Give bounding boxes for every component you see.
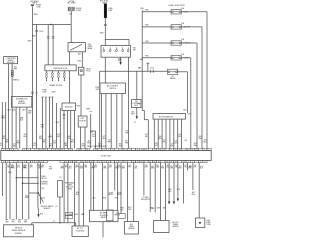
wire stub x=187.6 (187, 163, 189, 171)
wire horizontal bus y=24.5 (33, 24, 72, 26)
shift solenoid box Q (90, 210, 119, 221)
svg-text:BRN: BRN (61, 168, 64, 170)
label BLK mid (9, 166, 53, 174)
svg-text:YEL: YEL (92, 136, 95, 138)
ignition control module box (132, 100, 142, 108)
svg-text:GRN: GRN (23, 165, 26, 167)
wire P2 x=79 (78, 163, 80, 226)
wire x=64.1 (63, 163, 65, 223)
svg-text:BLU: BLU (18, 222, 21, 224)
svg-text:450: 450 (82, 144, 85, 146)
svg-text:3RD CL: 3RD CL (108, 194, 114, 196)
wire vss x=16.3 (15, 163, 17, 220)
svg-text:WHT: WHT (57, 136, 61, 138)
svg-text:WHT: WHT (144, 167, 147, 169)
svg-text:BRN: BRN (188, 168, 191, 170)
wire fuse row 4 right (181, 58, 191, 149)
svg-text:121: 121 (179, 166, 182, 168)
svg-text:11: 11 (145, 149, 147, 151)
svg-text:16: 16 (65, 162, 67, 164)
svg-text:423: 423 (194, 143, 197, 145)
label C100 on wire A (34, 14, 38, 16)
svg-text:440: 440 (67, 136, 70, 138)
svg-text:452: 452 (2, 136, 5, 138)
svg-text:OIL: OIL (171, 76, 174, 78)
svg-text:21: 21 (86, 149, 88, 151)
svg-text:3: 3 (104, 162, 105, 164)
svg-text:PPL: PPL (49, 146, 52, 148)
wire fuel pump x=199.2 (198, 163, 200, 218)
svg-text:6: 6 (24, 162, 25, 164)
svg-text:473: 473 (129, 165, 132, 167)
wire Q2 x=102.5 (102, 163, 104, 211)
wire switch to coil x=69.6 (69, 52, 71, 65)
svg-text:MODULE: MODULE (65, 107, 73, 109)
ignition module box (62, 103, 76, 111)
label BLK right (151, 207, 155, 209)
label SPARK PLUGS (49, 84, 63, 87)
svg-text:1: 1 (3, 162, 4, 164)
svg-text:SOLENOID: SOLENOID (76, 231, 85, 233)
svg-text:123: 123 (171, 144, 174, 146)
label C250 (41, 188, 45, 199)
label C2 lower (55, 206, 57, 208)
label FUSE JUNCTION (169, 5, 186, 7)
wire to box P (75, 223, 77, 226)
wire ac out x=111.2 (110, 94, 112, 149)
jog y=131 (91, 130, 96, 132)
svg-text:C150: C150 (39, 31, 43, 33)
svg-text:473: 473 (103, 136, 106, 138)
svg-text:453: 453 (155, 143, 158, 145)
wire branch y=177.8 (16, 177, 39, 178)
svg-text:VEHICLE SPEED: VEHICLE SPEED (41, 206, 54, 208)
svg-text:WHT: WHT (56, 122, 60, 124)
svg-text:GRN: GRN (128, 209, 131, 211)
wire fuse row 1 left (142, 10, 171, 12)
wire P1 x=74.5 (74, 163, 76, 226)
neutral switch box (153, 113, 185, 119)
svg-text:PICK UP: PICK UP (79, 121, 85, 123)
svg-text:GRY: GRY (29, 167, 32, 169)
svg-text:BLU: BLU (128, 207, 131, 209)
ECM pin cells top row (1, 149, 211, 151)
svg-text:472: 472 (98, 143, 101, 145)
svg-text:WHT: WHT (23, 167, 27, 169)
svg-text:10: 10 (141, 149, 143, 151)
label below icm ground (134, 122, 136, 124)
labels above pickup wires (42, 90, 56, 94)
fusible link A (31, 5, 42, 9)
resistance wire box (58, 181, 63, 198)
wire arrow x=169.1 (168, 163, 170, 205)
transmission solenoid box P (72, 226, 88, 237)
label resistance wire (65, 181, 75, 190)
svg-text:C2: C2 (53, 221, 55, 223)
svg-text:122: 122 (184, 165, 187, 167)
wire icm branch x=136.8 (136, 71, 138, 99)
fuse F3 (171, 38, 192, 45)
svg-text:(IGN COIL: (IGN COIL (66, 186, 73, 188)
wire ECM-B feed x=71.2 (70, 11, 72, 43)
wire dist pickup x=49.6 (48, 97, 50, 149)
svg-text:SPEED: SPEED (173, 224, 179, 226)
power source label HOT AT ALL TIMES (second) (67, 0, 75, 4)
svg-text:DIST: DIST (81, 118, 85, 120)
wire dist shield 1 (15, 107, 17, 149)
label ECM inside band (101, 156, 112, 158)
label C4 (120, 208, 124, 212)
svg-text:424: 424 (199, 136, 202, 138)
svg-text:BLK: BLK (200, 168, 203, 170)
wire pn switch x=169.9 (169, 119, 171, 149)
ECM pin numbers bottom row (3, 162, 206, 164)
connector ticks coil feeds (47, 37, 55, 38)
svg-text:WHT: WHT (1, 118, 5, 120)
wire bus lower jog (142, 111, 148, 120)
output speed box S (154, 221, 169, 233)
wire pn switch x=173.8 (173, 119, 175, 149)
ground arrow icm (136, 116, 138, 119)
wire dist shield 3 (26, 107, 28, 149)
svg-text:417: 417 (65, 165, 68, 167)
svg-text:439: 439 (80, 166, 83, 168)
wire pn switch x=177.7 (177, 119, 179, 149)
wire S1 x=160.4 (159, 163, 161, 221)
wire x=108 to small box (107, 163, 109, 210)
svg-text:BLK: BLK (24, 220, 27, 222)
wire module out 1 (63, 111, 65, 149)
svg-text:451: 451 (161, 166, 164, 168)
power label HOT AT ALL TIMES (center) (100, 0, 109, 4)
fusible link heavy bar (104, 4, 106, 18)
svg-text:BLK: BLK (152, 208, 155, 210)
svg-text:GRN: GRN (120, 208, 123, 210)
svg-text:124: 124 (17, 165, 20, 167)
label A11 (192, 191, 195, 196)
label RED (77, 105, 81, 107)
wire drop x=99.7 (99, 71, 101, 148)
svg-text:424: 424 (41, 165, 44, 167)
wire x=95.4 (94, 131, 96, 149)
fuse F2 (171, 22, 190, 29)
svg-text:453: 453 (170, 166, 173, 168)
svg-text:C2: C2 (49, 135, 51, 137)
svg-text:124: 124 (194, 165, 197, 167)
svg-text:PUMP: PUMP (206, 222, 210, 224)
wire module out 3 (70, 111, 72, 149)
svg-text:WHT: WHT (5, 142, 9, 144)
svg-text:TEMP: TEMP (129, 226, 133, 228)
svg-text:PPL: PPL (170, 146, 173, 148)
svg-text:441: 441 (71, 140, 74, 142)
svg-text:YEL: YEL (41, 167, 44, 169)
wire coil feed 2 x=53.1 (52, 25, 54, 65)
labels below band left (11, 165, 41, 169)
svg-text:18: 18 (175, 149, 177, 151)
svg-text:WIRE: WIRE (68, 184, 72, 186)
wire icm ground (136, 108, 138, 117)
svg-text:WHT: WHT (25, 197, 29, 199)
wire vss x=10 (9, 163, 11, 220)
wire shield 2 x=12.1 (11, 64, 13, 149)
wire diagonal (38, 193, 43, 203)
svg-text:451: 451 (185, 140, 188, 142)
svg-text:480: 480 (119, 144, 122, 146)
wire pn switch x=181.6 (181, 119, 183, 149)
label shield near band (8, 109, 12, 111)
wire module out 2 (67, 111, 69, 149)
svg-text:BLK: BLK (75, 214, 78, 216)
wire R1 x=127.5 (127, 163, 129, 222)
svg-text:419: 419 (178, 134, 181, 136)
wire branch y=193 (29, 192, 39, 193)
label PNK (168, 189, 172, 193)
wire pn switch x=162.1 (161, 119, 163, 149)
svg-text:124: 124 (174, 141, 177, 143)
mid labels right (90, 131, 187, 142)
svg-text:PPL: PPL (128, 167, 131, 169)
svg-text:WHT: WHT (118, 60, 122, 62)
svg-text:SW: SW (133, 49, 136, 51)
svg-text:21: 21 (86, 162, 88, 164)
wire branch y=183.3 (22, 183, 39, 184)
svg-text:BLU: BLU (177, 189, 180, 191)
wire vss x=28.8 (28, 163, 30, 220)
svg-text:481: 481 (156, 165, 159, 167)
svg-text:PRESS: PRESS (115, 214, 120, 216)
svg-text:440: 440 (85, 165, 88, 167)
wire ign feed x=105.3 (104, 18, 106, 40)
wire x=155.2 (152, 163, 156, 213)
wire dist out 2 (84, 127, 86, 149)
label to speedo (40, 175, 47, 180)
connector C150 on drop (35, 31, 43, 34)
svg-text:18: 18 (166, 162, 168, 164)
svg-text:472: 472 (122, 166, 125, 168)
svg-text:475: 475 (145, 165, 148, 167)
labels above box R (128, 207, 131, 211)
label C2 on wire A (31, 92, 38, 95)
svg-text:WHT: WHT (49, 168, 52, 170)
fuse F1 (171, 7, 188, 14)
label C2 above resistor (59, 177, 61, 179)
svg-text:6: 6 (24, 149, 25, 151)
wire stub x=114.8b (114, 163, 116, 191)
wire vss x=6.2 (5, 163, 7, 220)
svg-text:123: 123 (24, 134, 27, 136)
wire shield 1 x=8.5 (8, 64, 10, 149)
svg-text:SENSOR: SENSOR (172, 226, 179, 228)
svg-text:12: 12 (141, 162, 143, 164)
wire fuse row 2 right (181, 27, 202, 149)
svg-text:WHT: WHT (131, 114, 135, 116)
fuse ECM-B (68, 7, 82, 12)
label C210 at F5 wire end (183, 110, 191, 116)
labels below box2 (12, 110, 32, 115)
junction dot (50, 24, 51, 25)
svg-text:423: 423 (43, 140, 46, 142)
svg-text:WHT: WHT (178, 136, 182, 138)
svg-text:14: 14 (158, 149, 160, 151)
wire S2 x=165.5 (165, 163, 167, 221)
svg-text:WHT: WHT (86, 108, 90, 110)
svg-text:PNK: PNK (192, 194, 195, 196)
wire fuse row 3 left (142, 41, 171, 43)
mid labels left (20, 117, 59, 139)
svg-text:413: 413 (57, 134, 60, 136)
label TAN WHT (138, 66, 142, 69)
svg-text:YEL: YEL (163, 142, 166, 144)
svg-text:23: 23 (95, 149, 97, 151)
ignition switch box (101, 46, 131, 58)
svg-text:GRY: GRY (5, 222, 8, 224)
wire dist out 1 (80, 127, 82, 149)
label 15A (69, 13, 73, 16)
wire x=150.2 (149, 163, 151, 212)
label on drop 99.7 (96, 87, 100, 91)
label cam sensor (86, 68, 91, 73)
ECM pin numbers top row (3, 149, 210, 151)
svg-text:CLUTCH: CLUTCH (40, 178, 46, 180)
svg-text:GRY: GRY (109, 167, 112, 169)
label fusible link (108, 8, 113, 12)
svg-text:19: 19 (170, 162, 172, 164)
fuse gauges F5 (168, 69, 178, 80)
svg-text:SOLENOID: SOLENOID (100, 215, 109, 217)
svg-text:PPL: PPL (49, 166, 52, 168)
svg-text:GRN: GRN (157, 207, 160, 209)
distributor box (78, 116, 87, 127)
svg-text:GRN: GRN (151, 168, 154, 170)
wire below Q (102, 222, 104, 238)
label box S (172, 221, 179, 228)
svg-text:YEL: YEL (184, 167, 187, 169)
label fuel pump (206, 220, 210, 226)
label BLK WHT ground (118, 58, 122, 62)
ac control box (100, 83, 126, 94)
svg-text:480: 480 (151, 166, 154, 168)
wire ac out x=122 (121, 94, 123, 149)
svg-text:GRN: GRN (125, 133, 128, 135)
svg-text:BLK: BLK (135, 168, 138, 170)
svg-text:21: 21 (187, 149, 189, 151)
wire split y=39.5 (105, 40, 129, 46)
svg-text:15: 15 (162, 149, 164, 151)
svg-text:474: 474 (135, 166, 138, 168)
wire fuse row 3 right (181, 43, 197, 149)
svg-text:SENSOR: SENSOR (44, 208, 51, 210)
svg-text:GRY: GRY (175, 167, 178, 169)
svg-text:SPARK PLUGS: SPARK PLUGS (49, 84, 63, 87)
svg-text:19: 19 (78, 149, 80, 151)
tach switch box (68, 43, 86, 52)
svg-text:16: 16 (158, 162, 160, 164)
svg-text:GRY: GRY (69, 214, 72, 216)
ground arrow ign switch (119, 57, 121, 65)
svg-text:8: 8 (125, 162, 126, 164)
label to AT (108, 191, 122, 196)
label on wire A mid (28, 41, 32, 43)
svg-text:450: 450 (159, 136, 162, 138)
svg-text:IGNITION COIL: IGNITION COIL (53, 68, 68, 70)
svg-text:WHT: WHT (11, 220, 14, 222)
svg-text:FUEL: FUEL (206, 220, 210, 222)
svg-text:1: 1 (104, 149, 105, 151)
labels above box P (69, 214, 84, 216)
label to 4WD (141, 197, 150, 201)
svg-text:439: 439 (64, 143, 67, 145)
svg-text:PPL: PPL (6, 220, 9, 222)
wire dist pickup x=45.9 (45, 97, 47, 149)
svg-text:450: 450 (104, 166, 107, 168)
svg-text:WHT: WHT (107, 142, 111, 144)
wire x=56.6 (56, 103, 58, 149)
svg-text:BLK: BLK (189, 166, 192, 168)
svg-text:22: 22 (191, 149, 193, 151)
svg-text:WHT: WHT (48, 137, 52, 139)
label BLU (177, 189, 180, 191)
wire R2 x=133.7 (133, 163, 135, 222)
svg-text:PPL: PPL (194, 167, 197, 169)
svg-text:GRN: GRN (80, 168, 83, 170)
svg-text:121: 121 (13, 144, 16, 146)
speed buffer box (4, 225, 34, 237)
wire P3 x=83.5 (83, 163, 85, 226)
svg-text:WHT: WHT (13, 68, 17, 70)
svg-text:5: 5 (20, 162, 21, 164)
distributor shield ground box (12, 97, 32, 108)
label on drop x36.6 (32, 36, 36, 38)
svg-text:481: 481 (125, 141, 128, 143)
wire x=67.9 (67, 163, 69, 223)
labels above buffer box (5, 220, 28, 224)
wire arrow x=177.9 (177, 163, 179, 202)
wire F5 right (178, 72, 188, 113)
svg-text:FUSE JUNCTION: FUSE JUNCTION (169, 5, 186, 7)
svg-text:CONN: CONN (206, 224, 210, 226)
coil secondary winding 3 (57, 71, 59, 81)
svg-text:419: 419 (200, 166, 203, 168)
wire left edge 1 x=2.3 (1, 102, 3, 149)
connector on module wire (63, 114, 66, 119)
wire switch to cam x=82.3 (81, 52, 83, 68)
svg-text:WHT: WHT (75, 167, 78, 169)
wire code labels below ECM band (7, 165, 203, 170)
svg-text:122: 122 (17, 141, 20, 143)
label tach switch (87, 43, 93, 50)
wire bus to band x=148.3 (147, 120, 149, 149)
svg-text:CONTROL: CONTROL (40, 184, 48, 186)
svg-text:C210: C210 (150, 67, 154, 69)
wire below resistor (59, 197, 61, 223)
label BLK on cam wire (78, 54, 82, 63)
wire arrow x=174 (173, 163, 175, 205)
svg-text:20: 20 (175, 162, 177, 164)
wire ac out x=105.9 (105, 94, 107, 149)
svg-text:PPL: PPL (0, 145, 2, 147)
wire dist pickup x=52.4 (51, 97, 53, 149)
label BLK center (76, 192, 80, 196)
svg-text:7: 7 (129, 149, 130, 151)
svg-text:PPL: PPL (12, 222, 15, 224)
svg-text:SWITCH: SWITCH (109, 88, 116, 90)
wire gauges feed y=71.2 (100, 70, 168, 72)
ECM connector body (1, 151, 211, 161)
svg-text:ORN: ORN (103, 168, 106, 170)
svg-text:C2: C2 (36, 93, 38, 95)
label left edge wires (1, 116, 5, 120)
